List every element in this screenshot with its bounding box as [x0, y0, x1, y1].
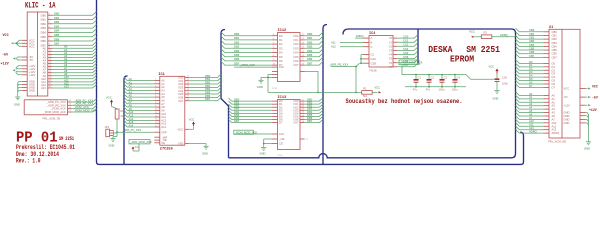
svg-text:D6: D6 — [552, 82, 556, 86]
svg-text:CB1: CB1 — [529, 32, 535, 36]
svg-text:DB3: DB3 — [54, 24, 60, 28]
svg-text:D5: D5 — [552, 79, 556, 83]
svg-text:SM 2251: SM 2251 — [59, 136, 74, 142]
svg-text:VCC: VCC — [29, 44, 35, 48]
svg-text:ADRQ: ADRQ — [356, 34, 364, 38]
svg-text:CB7: CB7 — [529, 54, 535, 58]
svg-text:10k: 10k — [121, 114, 126, 118]
svg-text:B: B — [371, 41, 373, 45]
svg-text:DB1: DB1 — [307, 36, 313, 40]
svg-text:R8: R8 — [121, 109, 125, 113]
svg-text:D6: D6 — [529, 80, 533, 84]
svg-text:A13: A13 — [64, 84, 69, 88]
svg-text:A13: A13 — [41, 86, 46, 90]
svg-text:_OE: _OE — [278, 137, 285, 141]
svg-text:CB0: CB0 — [552, 30, 558, 34]
svg-text:I/O1: I/O1 — [293, 38, 299, 42]
svg-text:SM 2251: SM 2251 — [466, 45, 500, 55]
svg-text:74138: 74138 — [369, 69, 377, 73]
svg-text:CB2: CB2 — [552, 37, 558, 41]
svg-text:D7: D7 — [552, 85, 556, 89]
svg-text:C3: C3 — [444, 75, 448, 79]
svg-text:Y3: Y3 — [389, 48, 393, 52]
svg-text:DB5: DB5 — [234, 53, 240, 57]
svg-text:A10: A10 — [529, 119, 534, 123]
svg-text:CB6: CB6 — [529, 50, 535, 54]
svg-text:CS2: CS2 — [403, 43, 409, 47]
svg-text:D0: D0 — [529, 60, 533, 64]
svg-text:VCC: VCC — [489, 65, 495, 69]
svg-text:Y7: Y7 — [389, 65, 393, 69]
svg-text:100n: 100n — [452, 88, 458, 92]
svg-text:A3: A3 — [529, 102, 533, 106]
svg-text:IC12: IC12 — [278, 29, 287, 33]
svg-text:A1: A1 — [552, 97, 556, 101]
svg-text:GND: GND — [564, 121, 570, 125]
svg-text:A: A — [371, 36, 373, 40]
svg-text:D3: D3 — [552, 72, 556, 76]
svg-text:IC4: IC4 — [369, 32, 375, 36]
svg-text:D5: D5 — [279, 55, 283, 59]
svg-text:VCC: VCC — [592, 85, 598, 89]
svg-text:_ADR_MOD_ACK: _ADR_MOD_ACK — [129, 140, 152, 144]
svg-text:I/O5: I/O5 — [293, 55, 299, 59]
svg-text:_ROM_MOD_ACK: _ROM_MOD_ACK — [399, 61, 423, 65]
svg-text:A2: A2 — [552, 100, 556, 104]
svg-text:D0: D0 — [279, 34, 283, 38]
svg-text:G1: G1 — [371, 53, 375, 57]
svg-text:CB4: CB4 — [552, 44, 558, 48]
svg-text:A14: A14 — [161, 125, 166, 129]
svg-text:DB3: DB3 — [41, 26, 47, 30]
svg-text:JP1: JP1 — [105, 125, 110, 129]
svg-text:DB1: DB1 — [54, 16, 60, 20]
svg-text:GND: GND — [564, 118, 570, 122]
svg-text:A13: A13 — [552, 128, 557, 132]
svg-text:-5V: -5V — [592, 96, 598, 100]
svg-text:D2: D2 — [552, 68, 556, 72]
svg-text:Y0: Y0 — [389, 36, 393, 40]
svg-text:CE: CE — [161, 141, 165, 145]
svg-text:D1: D1 — [529, 63, 533, 67]
svg-text:R2: R2 — [484, 31, 488, 35]
svg-text:A6: A6 — [529, 112, 533, 116]
svg-text:CB4: CB4 — [529, 43, 535, 47]
svg-text:A12: A12 — [331, 45, 336, 49]
svg-text:CB5: CB5 — [552, 48, 558, 52]
svg-text:CB0: CB0 — [529, 28, 535, 32]
svg-text:DB3: DB3 — [234, 45, 240, 49]
svg-text:D3: D3 — [279, 46, 283, 50]
svg-text:VCC: VCC — [3, 34, 9, 38]
svg-text:Soucastky bez hodnot nejsou os: Soucastky bez hodnot nejsou osazene. — [346, 98, 463, 105]
svg-text:DB5: DB5 — [54, 33, 60, 37]
svg-text:+12V: +12V — [564, 103, 571, 107]
svg-text:CLK: CLK — [279, 65, 284, 69]
svg-text:I/O4: I/O4 — [293, 51, 299, 55]
svg-text:D1: D1 — [552, 65, 556, 69]
svg-text:A13: A13 — [529, 126, 534, 130]
svg-text:I/O7: I/O7 — [178, 99, 184, 103]
svg-text:_ROM_MOD_ACK: _ROM_MOD_ACK — [42, 110, 66, 114]
svg-text:I/O6: I/O6 — [293, 59, 299, 63]
svg-text:VCC: VCC — [564, 87, 570, 91]
svg-text:A14: A14 — [129, 123, 134, 127]
svg-text:A4: A4 — [529, 106, 533, 110]
svg-text:D4: D4 — [279, 51, 283, 55]
svg-text:2716: 2716 — [278, 155, 284, 157]
svg-text:CS1: CS1 — [403, 39, 409, 43]
svg-text:A5: A5 — [529, 109, 533, 113]
svg-text:D4: D4 — [529, 74, 533, 78]
svg-text:A0: A0 — [552, 93, 556, 97]
svg-text:+12V: +12V — [589, 108, 597, 112]
svg-text:D2: D2 — [529, 67, 533, 71]
svg-text:C4: C4 — [457, 75, 461, 79]
svg-text:GND: GND — [202, 152, 208, 156]
svg-text:47u: 47u — [426, 88, 431, 92]
svg-text:100n: 100n — [502, 82, 508, 86]
svg-text:A5: A5 — [552, 111, 556, 115]
svg-text:CLK: CLK — [279, 132, 284, 136]
svg-text:CS0: CS0 — [403, 35, 409, 39]
svg-text:A7: A7 — [529, 116, 533, 120]
svg-text:X1: X1 — [549, 26, 553, 30]
svg-text:DB4: DB4 — [307, 49, 313, 53]
svg-text:DB0: DB0 — [54, 12, 60, 16]
svg-text:GND: GND — [584, 147, 590, 151]
svg-text:DB7: DB7 — [54, 42, 60, 46]
svg-text:D3: D3 — [529, 70, 533, 74]
svg-text:DB7: DB7 — [307, 61, 313, 65]
svg-text:D1: D1 — [279, 38, 283, 42]
svg-text:DB2: DB2 — [54, 20, 60, 24]
svg-text:ADRQ: ADRQ — [552, 131, 560, 135]
svg-text:G2A: G2A — [371, 57, 377, 61]
svg-text:DB1: DB1 — [41, 18, 47, 22]
svg-text:A0: A0 — [529, 92, 533, 96]
svg-text:KLIC - 1A: KLIC - 1A — [25, 0, 56, 10]
svg-text:DB7: DB7 — [205, 97, 211, 101]
svg-text:A11: A11 — [529, 123, 534, 127]
svg-text:A2: A2 — [529, 99, 533, 103]
svg-text:D2: D2 — [279, 42, 283, 46]
svg-text:-5V: -5V — [2, 54, 9, 58]
svg-text:A4: A4 — [552, 107, 556, 111]
svg-text:PRL_ACM_AB: PRL_ACM_AB — [548, 140, 566, 144]
svg-text:CB1: CB1 — [552, 33, 558, 37]
svg-text:_ROM_MOD_ACK: _ROM_MOD_ACK — [73, 108, 97, 112]
svg-text:A11: A11 — [552, 124, 557, 128]
svg-text:_ADR_PE_XXX: _ADR_PE_XXX — [73, 102, 93, 106]
svg-text:D5: D5 — [529, 77, 533, 81]
svg-text:D4: D4 — [552, 75, 556, 79]
svg-text:CB3: CB3 — [552, 41, 558, 45]
svg-text:I/O0: I/O0 — [293, 34, 299, 38]
svg-text:27C256: 27C256 — [160, 148, 173, 152]
svg-text:_ADR_PE_XXX: _ADR_PE_XXX — [46, 103, 66, 107]
svg-text:DB7: DB7 — [234, 119, 240, 123]
svg-text:DB2: DB2 — [234, 40, 240, 44]
svg-text:DB5: DB5 — [41, 35, 47, 39]
svg-text:VCC: VCC — [189, 117, 195, 121]
svg-text:DB6: DB6 — [41, 39, 47, 43]
svg-text:Y6: Y6 — [389, 61, 393, 65]
svg-text:DB1: DB1 — [234, 36, 240, 40]
svg-text:ADRQ: ADRQ — [500, 33, 508, 37]
svg-text:CB5: CB5 — [529, 46, 535, 50]
svg-text:CB6: CB6 — [552, 52, 558, 56]
svg-text:A11: A11 — [331, 40, 336, 44]
svg-text:D7: D7 — [529, 84, 533, 88]
svg-text:I/O2: I/O2 — [293, 42, 299, 46]
svg-text:VSS: VSS — [178, 142, 184, 146]
svg-text:Y1: Y1 — [389, 40, 393, 44]
svg-text:DB5: DB5 — [307, 53, 313, 57]
svg-text:GND: GND — [109, 144, 115, 148]
svg-text:DB4: DB4 — [234, 49, 240, 53]
svg-text:GND: GND — [257, 85, 263, 89]
svg-text:Y5: Y5 — [389, 57, 393, 61]
svg-text:2716: 2716 — [272, 88, 278, 90]
svg-text:D7: D7 — [279, 121, 283, 125]
svg-text:DB4: DB4 — [54, 29, 60, 33]
svg-text:DB6: DB6 — [234, 57, 240, 61]
svg-text:CS5: CS5 — [403, 55, 409, 59]
svg-text:A10: A10 — [552, 121, 557, 125]
svg-text:CE: CE — [279, 142, 283, 146]
svg-text:1G: 1G — [135, 145, 139, 149]
svg-text:Rev.: 1.0: Rev.: 1.0 — [16, 158, 41, 165]
svg-text:DB0: DB0 — [41, 13, 47, 17]
svg-text:VCC: VCC — [178, 127, 184, 131]
svg-text:VCC: VCC — [375, 86, 381, 90]
svg-text:VPP: VPP — [161, 130, 167, 134]
svg-text:CS3: CS3 — [403, 47, 409, 51]
svg-text:Y4: Y4 — [389, 53, 393, 57]
svg-text:A1: A1 — [529, 95, 533, 99]
svg-text:+12V: +12V — [29, 73, 36, 77]
svg-text:Y2: Y2 — [389, 44, 393, 48]
svg-text:C20: C20 — [502, 76, 507, 80]
svg-text:I/O7: I/O7 — [293, 121, 299, 125]
svg-text:VCC: VCC — [469, 30, 475, 34]
svg-text:IC1: IC1 — [158, 73, 164, 77]
svg-text:DB2: DB2 — [41, 22, 47, 26]
svg-text:I/O3: I/O3 — [293, 46, 299, 50]
svg-text:C1: C1 — [418, 75, 422, 79]
svg-text:I/O7: I/O7 — [293, 63, 299, 67]
svg-text:DB3: DB3 — [307, 45, 313, 49]
svg-text:GND: GND — [260, 152, 266, 156]
svg-text:_ADR_PE_XXX: _ADR_PE_XXX — [328, 63, 348, 67]
svg-text:-5V: -5V — [564, 95, 568, 99]
svg-text:CB2: CB2 — [529, 36, 535, 40]
svg-text:C: C — [371, 45, 373, 49]
svg-text:_ROM_ACK: _ROM_ACK — [239, 63, 255, 67]
svg-text:A7: A7 — [552, 117, 556, 121]
svg-text:DB4: DB4 — [41, 31, 47, 35]
svg-text:GND: GND — [493, 97, 499, 101]
svg-text:PRL_ACM_7B: PRL_ACM_7B — [43, 116, 61, 120]
svg-text:+12V: +12V — [1, 62, 10, 66]
svg-text:DB7: DB7 — [307, 119, 313, 123]
svg-text:GND: GND — [29, 89, 35, 93]
svg-text:D0: D0 — [552, 61, 556, 65]
svg-text:DB6: DB6 — [54, 37, 60, 41]
svg-text:-5V: -5V — [29, 58, 33, 62]
svg-text:DB2: DB2 — [307, 40, 313, 44]
svg-text:CB3: CB3 — [529, 39, 535, 43]
svg-text:_ROM_MOD_ACK: _ROM_MOD_ACK — [234, 130, 258, 134]
svg-text:GND: GND — [14, 103, 20, 107]
svg-text:CS4: CS4 — [403, 51, 409, 55]
svg-text:VCC: VCC — [106, 96, 112, 100]
svg-text:DESKA: DESKA — [428, 45, 453, 55]
svg-text:47u: 47u — [413, 88, 418, 92]
svg-text:C2: C2 — [431, 75, 435, 79]
svg-text:DB0: DB0 — [234, 32, 240, 36]
svg-text:EPROM: EPROM — [450, 55, 474, 65]
svg-text:GND: GND — [564, 114, 570, 118]
svg-text:DB7: DB7 — [234, 61, 240, 65]
svg-text:D6: D6 — [279, 59, 283, 63]
svg-text:G2B: G2B — [371, 61, 377, 65]
svg-text:R1: R1 — [363, 86, 367, 90]
svg-text:_ADR_PC_XXX: _ADR_PC_XXX — [121, 128, 141, 132]
svg-text:A6: A6 — [552, 114, 556, 118]
svg-text:A3: A3 — [552, 104, 556, 108]
svg-text:CB7: CB7 — [552, 55, 558, 59]
svg-text:ADRQ: ADRQ — [529, 130, 537, 134]
svg-text:DB6: DB6 — [307, 57, 313, 61]
svg-text:DB0: DB0 — [307, 32, 313, 36]
svg-text:100n: 100n — [439, 88, 445, 92]
